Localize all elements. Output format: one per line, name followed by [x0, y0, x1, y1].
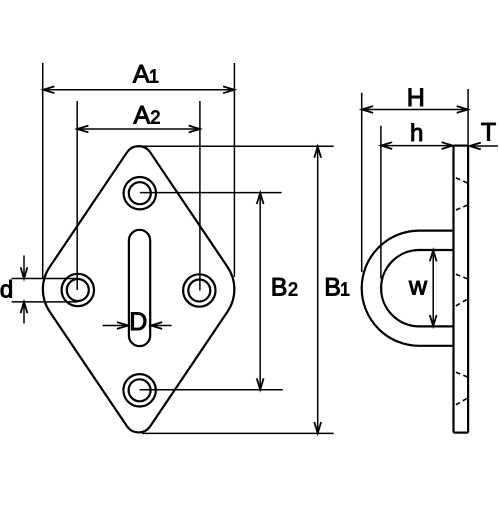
dimension H extension lines	[362, 89, 468, 272]
bottom bolt hole	[123, 374, 155, 406]
central slot (obround hole)	[129, 230, 150, 346]
dimension w arrow line	[430, 250, 437, 326]
dimension H arrow line	[362, 106, 468, 113]
dimension A1 extension lines	[43, 63, 235, 278]
svg-text:B: B	[324, 273, 341, 301]
svg-text:h: h	[410, 120, 423, 147]
svg-text:d: d	[0, 277, 13, 304]
svg-text:1: 1	[340, 279, 350, 299]
right bolt hole	[183, 274, 215, 306]
dimension A1 arrow line	[43, 86, 234, 93]
left bolt hole	[62, 274, 94, 306]
svg-text:2: 2	[150, 107, 160, 127]
eye loop inner contour	[381, 250, 453, 326]
diamond pad-eye plate outline	[43, 146, 235, 432]
dimension B2 extension lines	[140, 193, 283, 390]
svg-text:1: 1	[149, 66, 159, 86]
dimension D arrows	[103, 322, 172, 329]
svg-text:T: T	[481, 119, 496, 147]
dimension B2 arrow line	[257, 193, 264, 390]
svg-text:H: H	[407, 84, 425, 112]
svg-text:D: D	[129, 308, 147, 336]
dimension d witness lines	[12, 279, 78, 302]
dimension B1 arrow line	[314, 147, 321, 434]
dimension T arrow	[470, 143, 498, 150]
top bolt hole	[124, 177, 156, 209]
dimension d arrows	[21, 256, 28, 324]
side view plate (section)	[454, 146, 469, 433]
surface hatch marks on plate	[456, 178, 468, 405]
dimension A2 arrow line	[77, 126, 200, 133]
svg-text:B: B	[271, 273, 288, 301]
svg-text:2: 2	[288, 279, 298, 299]
dimension B1 extension lines	[139, 146, 334, 433]
svg-text:A: A	[134, 101, 151, 129]
dimension h arrow line	[381, 142, 453, 149]
svg-text:A: A	[133, 60, 150, 88]
dimension h extension line	[380, 126, 382, 279]
svg-text:w: w	[408, 273, 428, 301]
dimension A2 extension lines	[77, 101, 200, 291]
eye loop outer contour	[362, 231, 454, 346]
